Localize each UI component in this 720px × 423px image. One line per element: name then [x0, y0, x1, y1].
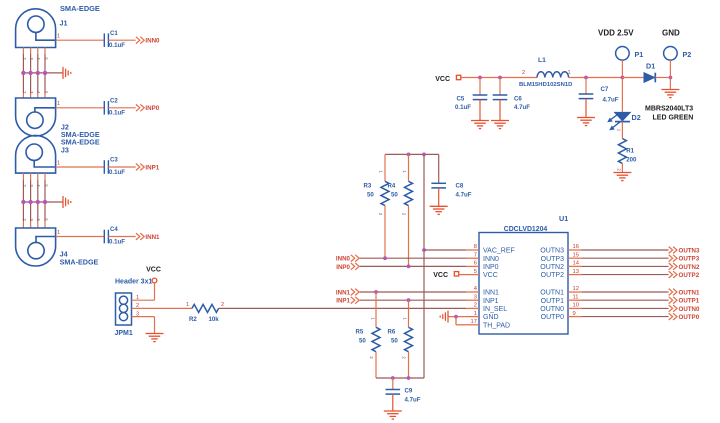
- label R3: [364, 182, 372, 189]
- wire R3 top: [384, 154, 386, 181]
- ground (bus2, sideways): [63, 196, 71, 208]
- svg-text:J1: J1: [60, 19, 68, 28]
- inductor L1: [537, 72, 569, 78]
- svg-text:10k: 10k: [209, 316, 220, 323]
- svg-text:2: 2: [221, 302, 224, 308]
- label P1: [635, 50, 644, 59]
- svg-text:OUTP3: OUTP3: [679, 256, 700, 263]
- wire vertical VAC_REF: [423, 154, 425, 378]
- svg-text:0.1uF: 0.1uF: [109, 169, 125, 176]
- junction dot rail/R4: [407, 153, 411, 157]
- wire C9 top: [392, 378, 394, 390]
- svg-text:SMA-EDGE: SMA-EDGE: [60, 257, 99, 266]
- U1 left pin names: [483, 248, 515, 330]
- label 0.1uF (C5): [455, 104, 471, 111]
- label 4.7uF (C6): [514, 104, 530, 111]
- wire GND to TH_PAD: [456, 317, 466, 325]
- svg-text:3: 3: [474, 294, 477, 300]
- off-page chevron INP1 (to U1): [351, 297, 359, 304]
- net label INN0 (to U1): [336, 256, 351, 263]
- junction dot P2: [669, 76, 673, 80]
- svg-text:2: 2: [522, 70, 525, 76]
- pin number 2 of R3: [378, 213, 383, 216]
- net labels OUTN3 OUTP3 OUTN2 OUTP2 OUTN1 OUTP1 OUTN0 OUTP0: [679, 247, 701, 321]
- junction dots bus1: [21, 71, 47, 75]
- svg-text:1: 1: [57, 161, 60, 167]
- resistor R1: [618, 139, 626, 164]
- svg-text:1: 1: [186, 302, 189, 308]
- svg-text:OUTP1: OUTP1: [541, 298, 564, 305]
- bus wires J1 to J2 (pins 2-5): [23, 48, 45, 99]
- label 200 (R1): [626, 157, 637, 164]
- wire C7 to ground: [585, 99, 587, 118]
- svg-text:INN0: INN0: [145, 38, 160, 45]
- ground (bus1, sideways): [63, 67, 71, 79]
- capacitor C4: [104, 230, 108, 244]
- label 4.7uF (C9): [405, 397, 421, 404]
- svg-text:C4: C4: [110, 226, 118, 233]
- svg-text:OUTP2: OUTP2: [541, 272, 564, 279]
- label D1: [646, 62, 655, 71]
- junction dot INN1/R5: [374, 290, 378, 294]
- svg-text:11: 11: [573, 294, 579, 300]
- pin number 1 of R6: [403, 317, 408, 320]
- label SMA-EDGE (J3): [61, 138, 100, 147]
- wire C6 to ground: [499, 100, 501, 121]
- net label INN1 (to U1): [336, 289, 351, 296]
- wire R6 bottom: [408, 352, 410, 378]
- svg-text:6: 6: [474, 261, 477, 267]
- label SMA-EDGE (J1): [60, 4, 100, 13]
- svg-text:VCC: VCC: [435, 76, 450, 83]
- label 4.7uF (C7): [603, 97, 619, 104]
- label J1: [60, 19, 68, 28]
- svg-text:1: 1: [57, 230, 60, 236]
- junction dot INP1/R6: [407, 298, 411, 302]
- svg-text:L1: L1: [538, 57, 546, 64]
- junction dot rail/C9: [391, 376, 395, 380]
- pin numbers 2 3 4 5 above J2: [22, 91, 49, 94]
- pin number 1 of J4: [57, 230, 60, 236]
- pin number 1 of R5: [371, 317, 376, 320]
- svg-text:INN0: INN0: [336, 256, 351, 263]
- wire R5 top: [375, 292, 377, 327]
- svg-text:OUTN0: OUTN0: [679, 306, 701, 313]
- svg-text:OUTP0: OUTP0: [679, 314, 700, 321]
- junction dot VAC_REF/pin8 wire: [422, 248, 426, 252]
- svg-text:VDD 2.5V: VDD 2.5V: [598, 29, 634, 38]
- label 10k (R2): [209, 316, 220, 323]
- svg-text:OUTN3: OUTN3: [679, 247, 701, 254]
- ground (C8): [430, 206, 448, 214]
- label D2: [632, 113, 641, 122]
- label 4.7uF (C8): [456, 192, 472, 199]
- capacitor C9: [386, 390, 401, 395]
- U1 right pin numbers: [573, 244, 580, 317]
- svg-text:0.1uF: 0.1uF: [455, 104, 471, 111]
- wire JPM1.2 to R2: [132, 307, 193, 309]
- junction dot INP0/R4: [407, 265, 411, 269]
- label CDCLVD1204: [504, 226, 548, 233]
- ground (C7): [577, 118, 595, 126]
- svg-text:VCC: VCC: [146, 267, 161, 274]
- ground (P2): [661, 90, 679, 98]
- svg-text:10: 10: [573, 303, 579, 309]
- wire C7 stem: [585, 78, 587, 95]
- svg-text:15: 15: [573, 252, 579, 258]
- wire INN1 to U1.4: [360, 291, 466, 293]
- pin number 1 of J3: [57, 161, 60, 167]
- svg-text:50: 50: [367, 191, 374, 198]
- svg-text:50: 50: [391, 337, 398, 344]
- svg-text:OUTN1: OUTN1: [540, 290, 564, 297]
- wire C4 to INN1: [108, 236, 135, 238]
- svg-text:OUTN0: OUTN0: [540, 306, 564, 313]
- label L1: [538, 57, 546, 64]
- ground (C5): [471, 121, 489, 129]
- svg-text:IN_SEL: IN_SEL: [483, 306, 507, 313]
- wire P1 to D1: [622, 77, 644, 79]
- wire top rail (VAC_REF net): [385, 153, 439, 155]
- wire bus1 to ground: [23, 72, 63, 74]
- net label INN1: [145, 234, 160, 241]
- pin numbers 1 2 3 of JPM1: [136, 295, 139, 317]
- wire P2 node to ground: [669, 78, 671, 90]
- capacitor C6: [493, 95, 508, 100]
- label C1: [110, 30, 118, 37]
- svg-text:D2: D2: [632, 113, 641, 122]
- svg-text:OUTP0: OUTP0: [541, 314, 564, 321]
- svg-text:200: 200: [626, 157, 637, 164]
- wire INN0 to U1.7: [360, 257, 466, 259]
- svg-text:OUTN2: OUTN2: [679, 264, 701, 271]
- svg-text:INP1: INP1: [145, 164, 159, 171]
- svg-text:D1: D1: [646, 62, 655, 71]
- net label INP0 (to U1): [336, 264, 350, 271]
- svg-text:C3: C3: [110, 157, 118, 164]
- wire C5 to ground: [479, 100, 481, 121]
- pin number 1 of R3: [379, 170, 384, 173]
- label C5: [457, 96, 465, 103]
- svg-text:BLM15HD102SN1D: BLM15HD102SN1D: [519, 82, 572, 88]
- label C4: [110, 226, 118, 233]
- svg-text:GND: GND: [662, 29, 680, 38]
- svg-text:50: 50: [359, 337, 366, 344]
- off-page chevron INN1: [136, 233, 144, 240]
- svg-text:0.1uF: 0.1uF: [109, 42, 125, 49]
- wire J1.1 to C1: [56, 39, 105, 41]
- U1 right pin names: [540, 248, 564, 322]
- off-page chevron INN0 (to U1): [351, 255, 359, 262]
- connector J1 SMA-EDGE: [16, 9, 56, 48]
- pin number 1 of L1: [568, 70, 571, 76]
- svg-text:INP0: INP0: [336, 264, 350, 271]
- label U1: [559, 214, 568, 223]
- label C3: [110, 157, 118, 164]
- label JPM1: [115, 330, 133, 337]
- svg-text:OUTP1: OUTP1: [679, 298, 700, 305]
- junction dot C6: [498, 76, 502, 80]
- net label INP0: [145, 105, 159, 112]
- svg-text:VAC_REF: VAC_REF: [483, 248, 515, 255]
- wire C3 to INP1: [108, 166, 135, 168]
- power symbol VCC (rail): [435, 75, 461, 83]
- svg-text:INN0: INN0: [483, 256, 499, 263]
- svg-text:U1: U1: [559, 214, 568, 223]
- junction dot C5: [478, 76, 482, 80]
- label VDD 2.5V: [598, 29, 634, 38]
- svg-text:14: 14: [573, 261, 580, 267]
- wire JPM1.3 to ground: [132, 317, 155, 334]
- svg-text:JPM1: JPM1: [115, 330, 133, 337]
- capacitor C5: [473, 95, 488, 100]
- svg-text:12: 12: [573, 286, 579, 292]
- svg-text:R1: R1: [626, 148, 634, 155]
- pin number 2 of R4: [402, 213, 407, 216]
- svg-text:50: 50: [391, 191, 398, 198]
- label 50 (R4): [391, 191, 398, 198]
- svg-text:Header 3x1: Header 3x1: [115, 279, 152, 286]
- junction dot rail/vertical: [422, 153, 426, 157]
- svg-text:P2: P2: [683, 50, 692, 59]
- svg-text:P1: P1: [635, 50, 644, 59]
- wire INP0 to U1.6: [360, 265, 466, 267]
- wire U1.1 to ground: [448, 316, 466, 318]
- ground (C9): [384, 411, 402, 419]
- pin numbers 2 3 4 5 below J1: [22, 57, 49, 60]
- bus wires J3 to J4 (pins 2-5): [23, 173, 45, 228]
- label J2: [61, 123, 69, 132]
- capacitor C2: [104, 101, 108, 115]
- capacitor C7: [579, 94, 594, 99]
- wire P1 stem: [621, 60, 623, 77]
- svg-text:1: 1: [57, 34, 60, 40]
- svg-text:1: 1: [57, 101, 60, 107]
- U1 right pin stubs: [568, 250, 582, 317]
- wire C5 stem: [479, 78, 481, 96]
- wire VAC_REF to U1.8: [424, 249, 466, 251]
- wire R6 top: [408, 300, 410, 327]
- wire C9 to ground: [392, 394, 394, 411]
- svg-text:INP0: INP0: [145, 105, 159, 112]
- off-page chevron INP1: [136, 164, 144, 171]
- svg-text:INN1: INN1: [483, 290, 499, 297]
- wire C6 stem: [499, 78, 501, 96]
- pin number 1 of J1: [57, 34, 60, 40]
- label LED GREEN: [653, 115, 694, 122]
- label 50 (R6): [391, 337, 398, 344]
- svg-text:C1: C1: [110, 30, 118, 37]
- wire L1 to P1: [569, 77, 623, 79]
- pin number 2 of R5: [369, 356, 374, 359]
- pin numbers 2 3 4 5 below J3: [22, 184, 49, 187]
- off-page chevron INN1 (to U1): [351, 289, 359, 296]
- pin number 1 of R1: [617, 129, 622, 132]
- wire C8 top: [438, 154, 440, 183]
- junction dot GND/TH_PAD: [454, 315, 458, 319]
- svg-text:13: 13: [573, 269, 579, 275]
- wire C8 to ground: [438, 188, 440, 206]
- svg-text:SMA-EDGE: SMA-EDGE: [60, 4, 100, 13]
- svg-text:OUTN1: OUTN1: [679, 289, 701, 296]
- off-page chevron INP0: [136, 104, 144, 111]
- svg-text:GND: GND: [483, 314, 499, 321]
- wire VCC square to U1.5: [459, 274, 466, 276]
- svg-text:INN1: INN1: [336, 289, 351, 296]
- wire D2 to R1: [621, 122, 623, 139]
- wire R2 to U1 IN_SEL: [219, 307, 466, 309]
- ground (R1): [613, 173, 631, 181]
- label Header 3x1: [115, 279, 152, 286]
- label 50 (R3): [367, 191, 374, 198]
- svg-text:C5: C5: [457, 96, 465, 103]
- label R2: [189, 316, 197, 323]
- connector J4 SMA-EDGE: [16, 228, 56, 266]
- label SMA-EDGE (J2): [61, 130, 100, 139]
- pin number 1 of R4: [402, 170, 407, 173]
- connector JPM1 header 3x1: [116, 293, 132, 325]
- svg-text:C7: C7: [601, 86, 609, 93]
- svg-text:CDCLVD1204: CDCLVD1204: [504, 226, 548, 233]
- net label INP1 (to U1): [336, 298, 350, 305]
- svg-text:C6: C6: [514, 96, 522, 103]
- svg-text:R6: R6: [388, 328, 396, 335]
- svg-text:OUTN2: OUTN2: [540, 264, 564, 271]
- label 0.1uF (C4): [109, 238, 125, 245]
- wire R4 top: [408, 154, 410, 181]
- pin number 1 of J2: [57, 101, 60, 107]
- LED D2: [615, 112, 631, 121]
- wire INP1 to U1.3: [360, 299, 466, 301]
- power symbol VCC (U1 pin5): [433, 272, 458, 280]
- pin number 2 of R6: [402, 356, 407, 359]
- label J3: [61, 145, 69, 154]
- ground (U1 GND pin, sideways): [440, 311, 448, 323]
- svg-text:C9: C9: [405, 388, 413, 395]
- svg-text:4.7uF: 4.7uF: [456, 192, 472, 199]
- label R5: [356, 328, 364, 335]
- svg-text:C8: C8: [456, 183, 464, 190]
- label C9: [405, 388, 413, 395]
- net label INN0: [145, 38, 160, 45]
- wire C1 to INN0: [108, 39, 135, 41]
- label 0.1uF (C3): [109, 169, 125, 176]
- wire J2.1 to C2: [56, 107, 105, 109]
- svg-text:R2: R2: [189, 316, 197, 323]
- label J4: [60, 250, 68, 259]
- wire bottom rail: [376, 377, 424, 379]
- wire R5 bottom: [375, 352, 377, 378]
- test point P1: [616, 47, 630, 61]
- connector J3 SMA-EDGE: [16, 135, 56, 173]
- svg-text:INN1: INN1: [145, 234, 160, 241]
- svg-text:MBRS2040LT3: MBRS2040LT3: [645, 106, 693, 113]
- label P2: [683, 50, 692, 59]
- svg-text:R3: R3: [364, 182, 372, 189]
- test point P2: [664, 47, 678, 61]
- svg-text:INP1: INP1: [336, 298, 350, 305]
- diode D1: [644, 73, 655, 83]
- svg-text:7: 7: [474, 252, 477, 258]
- label C2: [110, 97, 118, 104]
- svg-text:VCC: VCC: [433, 272, 448, 279]
- svg-text:J3: J3: [61, 145, 69, 154]
- svg-text:4.7uF: 4.7uF: [405, 397, 421, 404]
- svg-text:R4: R4: [388, 182, 396, 189]
- wire P2 stem: [669, 60, 671, 77]
- wire R3 bottom to INN0 net: [384, 206, 386, 259]
- pin number 2 of R1: [617, 168, 622, 171]
- IC U1 CDCLVD1204 body: [479, 233, 568, 335]
- pin number 1 of R2: [186, 302, 189, 308]
- pin number 2 of R2: [221, 302, 224, 308]
- label 0.1uF (C1): [109, 42, 125, 49]
- svg-text:8: 8: [474, 244, 477, 250]
- label R1: [626, 148, 634, 155]
- label GND: [662, 29, 680, 38]
- label C8: [456, 183, 464, 190]
- label R6: [388, 328, 396, 335]
- label BLM15HD102SN1D (L1): [519, 82, 572, 88]
- pin numbers 2 3 4 5 above J4: [22, 218, 49, 221]
- junction dot rail/R6: [407, 376, 411, 380]
- net label INP1: [145, 164, 159, 171]
- label C6: [514, 96, 522, 103]
- wire J4.1 to C4: [56, 236, 105, 238]
- ground (C6): [491, 121, 509, 129]
- resistor R5: [372, 327, 380, 351]
- svg-text:R5: R5: [356, 328, 364, 335]
- label R4: [388, 182, 396, 189]
- label 50 (R5): [359, 337, 366, 344]
- wire JPM1.1 to VCC: [132, 283, 155, 300]
- off-page chevron INN0: [136, 37, 144, 44]
- svg-text:9: 9: [573, 311, 576, 317]
- pin number 2 of L1: [522, 70, 525, 76]
- svg-text:0.1uF: 0.1uF: [109, 110, 125, 117]
- wires U1 outputs: [582, 250, 669, 317]
- svg-text:C2: C2: [110, 97, 118, 104]
- junction dot INN0/R3: [383, 256, 387, 260]
- power symbol VCC (header): [146, 267, 161, 283]
- U1 left pin numbers: [471, 244, 478, 325]
- wire VCC to L1: [461, 77, 537, 79]
- LED D2 arrows: [607, 115, 620, 131]
- wire R4 bottom to INP0 net: [408, 206, 410, 267]
- label 0.1uF (C2): [109, 110, 125, 117]
- svg-text:OUTP2: OUTP2: [679, 272, 700, 279]
- svg-text:LED GREEN: LED GREEN: [653, 115, 694, 122]
- wire C2 to INP0: [108, 107, 135, 109]
- svg-text:INP1: INP1: [483, 298, 499, 305]
- svg-text:TH_PAD: TH_PAD: [483, 322, 510, 329]
- junction dots bus2: [21, 200, 47, 204]
- resistor R3: [381, 181, 389, 205]
- svg-text:2: 2: [474, 303, 477, 309]
- junction dot P1: [621, 76, 625, 80]
- svg-text:5: 5: [474, 269, 477, 275]
- resistor R6: [405, 327, 413, 351]
- resistor R2: [192, 304, 219, 312]
- svg-text:OUTN3: OUTN3: [540, 248, 564, 255]
- wire J3.1 to C3: [56, 166, 105, 168]
- svg-text:4.7uF: 4.7uF: [514, 104, 530, 111]
- svg-text:INP0: INP0: [483, 264, 499, 271]
- svg-text:16: 16: [573, 244, 579, 250]
- label MBRS2040LT3: [645, 106, 693, 113]
- label C7: [601, 86, 609, 93]
- wire R1 to ground: [621, 163, 623, 172]
